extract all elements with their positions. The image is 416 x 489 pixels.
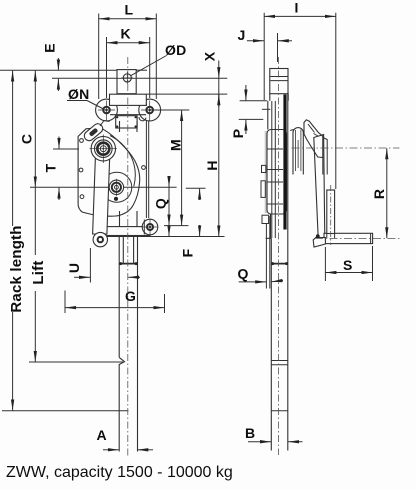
svg-text:ZWW, capacity 1500 - 10000 kg: ZWW, capacity 1500 - 10000 kg	[6, 464, 233, 481]
dimension U	[66, 248, 140, 283]
dimension Lift line vertical	[30, 187, 47, 362]
dimension P	[230, 85, 246, 138]
svg-text:H: H	[204, 160, 220, 170]
dimension G	[65, 288, 165, 313]
svg-text:C: C	[19, 134, 35, 144]
case hole top-left	[80, 139, 84, 143]
housing inner steps	[267, 149, 283, 204]
rack side view	[271, 94, 288, 451]
hole D	[121, 72, 133, 84]
hole N right	[141, 101, 159, 121]
bracket bump right	[139, 117, 146, 121]
rack edges upper segment	[120, 121, 138, 132]
label OD	[165, 42, 186, 58]
label ON	[68, 86, 89, 102]
upper bracket lobes	[96, 99, 161, 121]
axle centerline tick	[53, 148, 79, 150]
svg-text:Rack length: Rack length	[8, 225, 25, 312]
ON shelf and leader	[67, 101, 105, 110]
svg-text:ØN: ØN	[68, 86, 89, 102]
gear case	[78, 128, 140, 216]
dimension Rack length vertical	[8, 71, 25, 411]
rack joint 3 side view	[271, 410, 287, 412]
top reference line	[0, 69, 147, 71]
housing top ledge line	[240, 100, 267, 102]
lever arm	[93, 157, 110, 234]
pawl side strip	[323, 138, 327, 175]
rack length horizontal line	[2, 410, 129, 412]
pawl	[304, 120, 323, 158]
pawl link lines	[100, 121, 110, 127]
svg-text:E: E	[42, 43, 58, 53]
back plate hole	[142, 166, 146, 170]
svg-text:S: S	[343, 257, 353, 273]
mounting surface line	[103, 236, 225, 238]
pawl tooth mark	[101, 136, 105, 140]
head block side	[270, 69, 288, 94]
svg-text:K: K	[121, 26, 131, 42]
case hole mid-left	[79, 168, 83, 172]
case hole bottom-left	[80, 195, 84, 199]
rack centerline side view	[278, 57, 280, 455]
pinion	[109, 179, 123, 196]
heavy side plate edge	[283, 95, 286, 230]
rack joint front view	[119, 262, 137, 265]
grip circle	[93, 232, 107, 246]
rack centerline front view	[127, 57, 129, 456]
dimension Q side	[238, 266, 284, 282]
dimension C	[19, 71, 36, 188]
leader to D label	[131, 56, 167, 76]
rack lower part front view	[119, 211, 137, 452]
dimension A	[97, 427, 154, 450]
dimension Q front	[153, 176, 170, 236]
svg-text:ØD: ØD	[165, 42, 186, 58]
svg-text:I: I	[295, 0, 299, 16]
rack joint 2 side view	[271, 361, 287, 365]
svg-text:A: A	[97, 427, 107, 443]
back plate edge	[146, 121, 148, 219]
svg-text:X: X	[202, 51, 218, 61]
pinion gear circle	[102, 172, 132, 202]
pinion centerline	[30, 186, 177, 188]
left step	[262, 165, 266, 172]
rack joint side view	[271, 262, 288, 265]
svg-text:Lift: Lift	[30, 260, 47, 284]
upper bracket band	[109, 104, 147, 114]
dimension B	[245, 425, 303, 442]
bracket bump left	[118, 117, 125, 121]
svg-text:M: M	[168, 139, 184, 151]
pinion lower pin	[114, 197, 118, 201]
hole centerline through head	[117, 77, 136, 79]
head block	[117, 70, 136, 94]
hole N left	[98, 101, 115, 121]
dimension F	[180, 188, 206, 257]
svg-text:J: J	[238, 27, 246, 43]
dimension K	[107, 26, 150, 99]
dimension I	[264, 0, 336, 189]
crank axis centerline	[292, 147, 400, 149]
left lug	[261, 181, 265, 198]
head bottom reference line	[146, 93, 227, 95]
handle centerline	[315, 237, 400, 239]
svg-text:Q: Q	[238, 266, 249, 282]
hole centerline reference	[52, 77, 227, 79]
crank axle boss	[90, 135, 118, 164]
svg-text:L: L	[125, 2, 134, 18]
dimension M	[150, 110, 189, 226]
svg-text:P: P	[230, 129, 246, 139]
hub boss	[290, 128, 303, 175]
svg-text:Q: Q	[153, 198, 169, 209]
bottom bracket plate	[104, 227, 150, 236]
handle tube	[324, 233, 373, 243]
P lower tick	[239, 118, 264, 120]
dimension X and H shared line	[202, 51, 221, 236]
svg-text:B: B	[245, 425, 255, 441]
dimension R	[371, 148, 387, 238]
lower ledge	[262, 215, 269, 223]
bottom bracket lobe	[142, 219, 158, 235]
svg-text:T: T	[43, 163, 59, 172]
grip tube vertical	[327, 185, 335, 245]
lift notch	[119, 357, 124, 451]
dimension J	[238, 27, 293, 62]
ratchet lever lobe	[82, 122, 104, 143]
name plate	[116, 116, 137, 128]
svg-text:U: U	[66, 263, 82, 273]
dimension S	[325, 246, 372, 281]
dimension E	[42, 43, 59, 91]
main housing side	[265, 130, 287, 215]
svg-text:F: F	[180, 248, 196, 257]
crank arm	[314, 135, 325, 239]
housing upper bar	[262, 101, 270, 130]
svg-text:R: R	[371, 189, 387, 199]
svg-text:G: G	[125, 288, 136, 304]
neck side	[270, 94, 288, 101]
dimension L	[99, 2, 157, 100]
bottom bracket hole	[143, 219, 158, 236]
case inner wall arc	[110, 136, 135, 187]
arm foot	[313, 234, 325, 247]
upper bracket top plate	[110, 94, 147, 105]
dimension T	[43, 137, 60, 201]
lift horizontal line	[29, 361, 123, 363]
lower housing box	[266, 214, 272, 238]
housing inner plate lines	[266, 101, 275, 289]
